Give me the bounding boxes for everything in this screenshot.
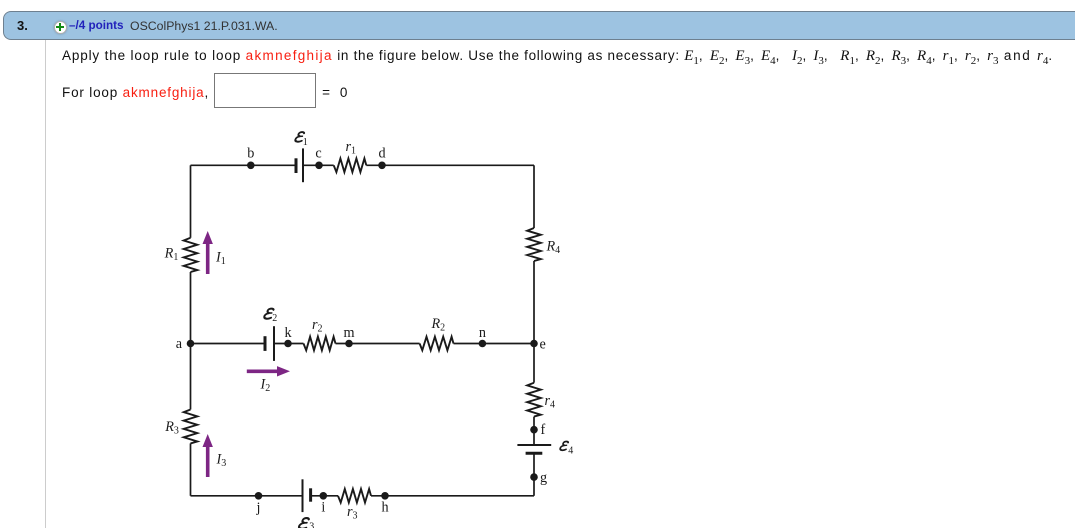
svg-text:I2: I2	[260, 376, 271, 394]
svg-text:1: 1	[303, 137, 308, 148]
svg-text:e: e	[540, 337, 546, 353]
svg-text:r1: r1	[346, 139, 357, 157]
svg-text:3: 3	[309, 522, 314, 528]
svg-text:b: b	[247, 146, 254, 162]
svg-text:4: 4	[568, 446, 573, 457]
svg-text:I3: I3	[216, 452, 227, 470]
svg-text:c: c	[315, 146, 321, 162]
svg-text:r2: r2	[312, 317, 323, 335]
svg-text:k: k	[284, 325, 292, 341]
svg-text:i: i	[321, 499, 325, 515]
svg-text:r4: r4	[545, 393, 556, 411]
svg-text:d: d	[378, 146, 385, 162]
svg-text:j: j	[256, 500, 261, 516]
svg-text:m: m	[343, 325, 354, 341]
svg-text:2: 2	[272, 313, 277, 324]
svg-text:n: n	[479, 325, 486, 341]
svg-text:g: g	[540, 470, 547, 486]
svg-text:R2: R2	[431, 316, 446, 334]
svg-text:R3: R3	[164, 419, 179, 437]
svg-text:r3: r3	[347, 504, 358, 522]
svg-text:R1: R1	[164, 245, 179, 263]
svg-text:a: a	[176, 336, 183, 352]
svg-text:h: h	[381, 499, 388, 515]
svg-text:f: f	[541, 422, 546, 438]
svg-text:I1: I1	[215, 249, 226, 267]
svg-text:R4: R4	[546, 239, 561, 257]
